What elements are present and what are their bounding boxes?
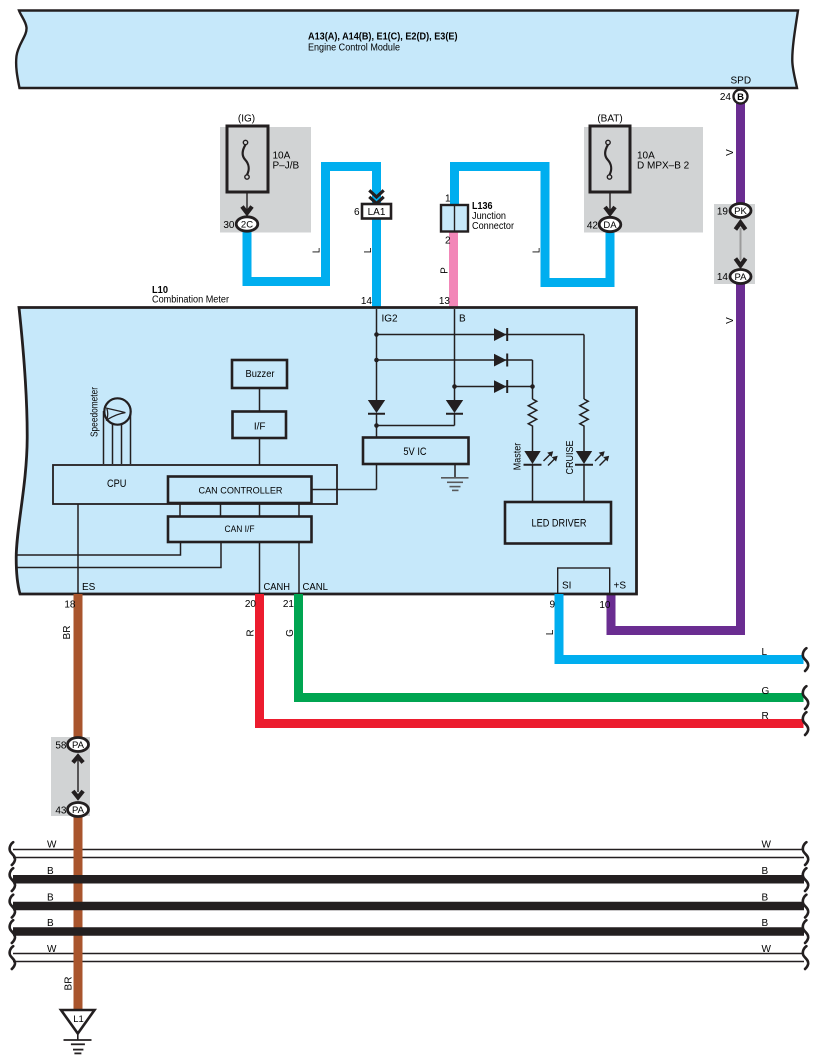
svg-text:B: B: [762, 918, 769, 929]
svg-text:PA: PA: [72, 805, 85, 816]
svg-text:PA: PA: [735, 272, 748, 283]
svg-text:6: 6: [354, 207, 360, 218]
svg-text:B: B: [47, 866, 54, 877]
svg-text:ES: ES: [82, 582, 96, 593]
svg-text:DA: DA: [603, 220, 617, 231]
svg-text:CANH: CANH: [264, 582, 291, 593]
svg-text:Speedometer: Speedometer: [90, 386, 101, 437]
svg-text:R: R: [762, 711, 769, 722]
svg-text:CRUISE: CRUISE: [565, 440, 576, 474]
svg-text:5V IC: 5V IC: [403, 446, 426, 458]
svg-text:W: W: [47, 840, 57, 851]
svg-text:2C: 2C: [241, 220, 253, 231]
svg-text:2: 2: [445, 236, 451, 247]
svg-text:SI: SI: [562, 581, 571, 592]
svg-text:IG2: IG2: [382, 314, 399, 325]
svg-text:42: 42: [587, 221, 599, 232]
svg-text:13: 13: [439, 296, 451, 307]
svg-text:CPU: CPU: [107, 478, 127, 490]
svg-text:30: 30: [223, 220, 235, 231]
svg-text:R: R: [246, 629, 257, 636]
svg-text:21: 21: [283, 599, 295, 610]
svg-text:1: 1: [445, 194, 451, 205]
svg-text:L: L: [363, 247, 374, 253]
svg-text:L: L: [545, 629, 556, 635]
svg-text:PA: PA: [72, 740, 85, 751]
svg-text:L: L: [312, 247, 323, 253]
svg-text:CAN I/F: CAN I/F: [225, 524, 255, 535]
svg-text:G: G: [285, 629, 296, 637]
svg-text:B: B: [762, 866, 769, 877]
svg-text:B: B: [459, 314, 466, 325]
svg-text:LED DRIVER: LED DRIVER: [532, 518, 587, 530]
svg-text:20: 20: [245, 599, 257, 610]
svg-text:(IG): (IG): [238, 114, 255, 125]
svg-text:LA1: LA1: [368, 207, 386, 218]
svg-text:V: V: [725, 317, 736, 324]
svg-text:+S: +S: [614, 581, 627, 592]
svg-text:(BAT): (BAT): [597, 114, 622, 125]
svg-text:D MPX–B 2: D MPX–B 2: [637, 161, 690, 172]
svg-text:BR: BR: [62, 626, 73, 640]
svg-text:PK: PK: [734, 206, 747, 217]
svg-text:W: W: [47, 944, 57, 955]
svg-text:18: 18: [64, 600, 76, 611]
svg-text:43: 43: [55, 806, 67, 817]
svg-text:BR: BR: [64, 977, 75, 991]
svg-text:B: B: [762, 893, 769, 904]
svg-text:Connector: Connector: [472, 221, 515, 232]
svg-text:14: 14: [361, 296, 373, 307]
svg-text:W: W: [762, 840, 772, 851]
svg-text:L1: L1: [73, 1014, 84, 1025]
svg-text:V: V: [725, 149, 736, 156]
svg-text:CAN CONTROLLER: CAN CONTROLLER: [199, 485, 283, 496]
svg-text:14: 14: [717, 272, 729, 283]
svg-text:9: 9: [549, 600, 555, 611]
svg-text:W: W: [762, 944, 772, 955]
svg-text:L: L: [532, 247, 543, 253]
svg-text:24: 24: [720, 92, 732, 103]
svg-text:Combination Meter: Combination Meter: [152, 295, 230, 306]
svg-text:Engine Control Module: Engine Control Module: [308, 42, 400, 54]
svg-text:Buzzer: Buzzer: [246, 369, 276, 380]
svg-text:19: 19: [717, 207, 729, 218]
svg-text:P: P: [440, 267, 451, 274]
svg-text:B: B: [737, 92, 744, 103]
svg-text:I/F: I/F: [254, 421, 266, 432]
svg-text:L: L: [762, 647, 768, 658]
svg-text:10: 10: [599, 600, 611, 611]
svg-text:Master: Master: [513, 442, 524, 470]
svg-text:B: B: [47, 918, 54, 929]
svg-text:SPD: SPD: [731, 76, 752, 87]
svg-text:G: G: [762, 686, 770, 697]
svg-text:58: 58: [55, 741, 67, 752]
svg-text:B: B: [47, 893, 54, 904]
svg-text:P–J/B: P–J/B: [273, 161, 300, 172]
svg-text:CANL: CANL: [303, 582, 329, 593]
